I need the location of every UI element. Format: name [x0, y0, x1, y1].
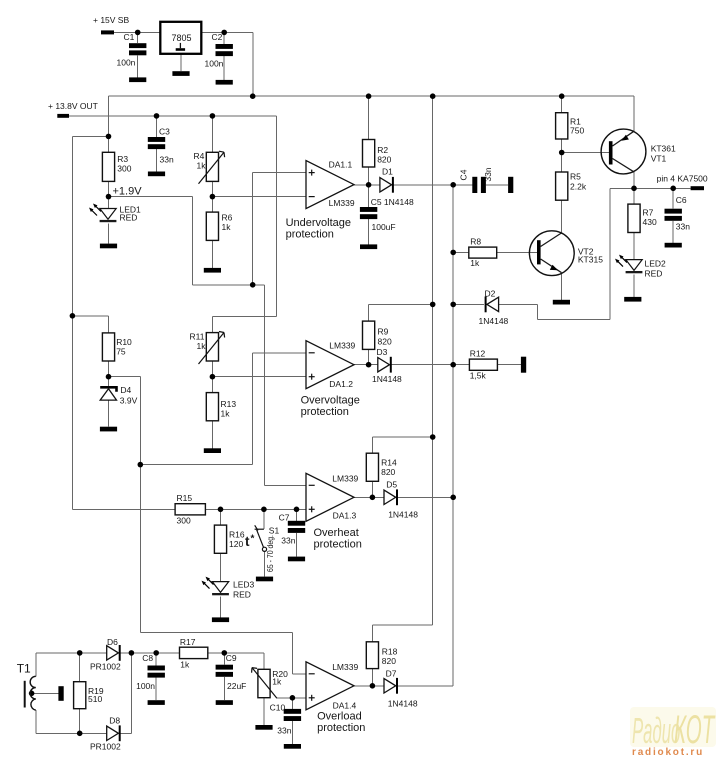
svg-text:protection: protection	[286, 229, 334, 241]
svg-text:22uF: 22uF	[227, 681, 246, 691]
svg-text:LM339: LM339	[329, 198, 355, 208]
svg-text:1k: 1k	[197, 161, 207, 171]
svg-text:RED: RED	[233, 589, 251, 599]
svg-text:КОТ: КОТ	[674, 706, 716, 751]
svg-text:820: 820	[382, 656, 396, 666]
svg-text:1k: 1k	[470, 258, 480, 268]
svg-text:820: 820	[378, 336, 392, 346]
svg-text:33n: 33n	[281, 535, 295, 545]
svg-text:KT315: KT315	[578, 255, 603, 265]
svg-text:1k: 1k	[180, 660, 190, 670]
svg-text:1,5k: 1,5k	[470, 371, 487, 381]
svg-text:1k: 1k	[272, 677, 282, 687]
svg-text:1N4148: 1N4148	[479, 316, 509, 326]
svg-text:2.2k: 2.2k	[570, 182, 587, 192]
svg-text:t: t	[245, 534, 250, 549]
svg-text:DA1.4: DA1.4	[333, 700, 357, 710]
svg-text:T1: T1	[17, 662, 31, 676]
svg-text:R8: R8	[470, 237, 481, 247]
svg-text:R9: R9	[378, 327, 389, 337]
svg-text:protection: protection	[301, 406, 349, 418]
svg-text:3.9V: 3.9V	[120, 396, 138, 406]
svg-text:1N4148: 1N4148	[372, 374, 402, 384]
svg-text:100uF: 100uF	[372, 222, 396, 232]
svg-text:Overload: Overload	[317, 711, 362, 723]
svg-text:120: 120	[229, 539, 243, 549]
svg-text:C8: C8	[142, 653, 153, 663]
svg-text:PR1002: PR1002	[90, 662, 121, 672]
svg-text:LM339: LM339	[332, 474, 358, 484]
svg-text:Overvoltage: Overvoltage	[301, 395, 360, 407]
svg-text:+ 13.8V OUT: + 13.8V OUT	[48, 101, 98, 111]
svg-text:C2: C2	[212, 32, 223, 42]
svg-text:C10: C10	[270, 703, 286, 713]
svg-text:protection: protection	[314, 539, 362, 551]
svg-text:R3: R3	[117, 154, 128, 164]
svg-text:LM339: LM339	[332, 662, 358, 672]
svg-text:C7: C7	[279, 513, 290, 523]
svg-text:D4: D4	[120, 385, 131, 395]
svg-text:RED: RED	[120, 213, 138, 223]
svg-text:510: 510	[88, 694, 102, 704]
svg-text:1k: 1k	[221, 409, 231, 419]
svg-text:PR1002: PR1002	[90, 742, 121, 752]
svg-text:protection: protection	[317, 722, 365, 734]
svg-text:33n: 33n	[483, 167, 493, 181]
svg-text:1N4148: 1N4148	[388, 698, 418, 708]
svg-text:S1: S1	[269, 526, 280, 536]
svg-text:R2: R2	[377, 145, 388, 155]
svg-text:R13: R13	[221, 399, 237, 409]
svg-text:LED2: LED2	[645, 258, 667, 268]
svg-text:DA1.2: DA1.2	[329, 379, 353, 389]
svg-text:*: *	[251, 534, 255, 545]
svg-text:R11: R11	[190, 332, 205, 342]
svg-text:DA1.3: DA1.3	[333, 510, 357, 520]
svg-text:Undervoltage: Undervoltage	[286, 217, 351, 229]
svg-text:radiokot.ru: radiokot.ru	[632, 747, 704, 758]
svg-text:R5: R5	[570, 172, 581, 182]
svg-text:75: 75	[116, 347, 126, 357]
svg-text:pin 4 KA7500: pin 4 KA7500	[657, 174, 708, 184]
svg-text:R14: R14	[381, 458, 397, 468]
svg-text:1N4148: 1N4148	[388, 509, 418, 519]
svg-text:D8: D8	[109, 716, 120, 726]
svg-text:DA1.1: DA1.1	[329, 159, 353, 169]
svg-text:33n: 33n	[277, 725, 291, 735]
svg-text:LED3: LED3	[233, 579, 255, 589]
svg-text:RED: RED	[645, 268, 663, 278]
svg-text:C6: C6	[676, 195, 687, 205]
svg-text:33n: 33n	[676, 222, 690, 232]
svg-text:D5: D5	[386, 479, 397, 489]
svg-text:+1.9V: +1.9V	[113, 186, 143, 198]
svg-text:33n: 33n	[160, 155, 174, 165]
svg-text:R17: R17	[180, 637, 196, 647]
svg-text:430: 430	[643, 217, 657, 227]
svg-text:Overheat: Overheat	[314, 527, 359, 539]
svg-text:1k: 1k	[222, 222, 232, 232]
svg-text:D1: D1	[382, 167, 393, 177]
svg-text:C5 1N4148: C5 1N4148	[371, 197, 414, 207]
svg-text:C4: C4	[459, 169, 469, 180]
svg-text:VT1: VT1	[651, 154, 667, 164]
svg-text:+ 15V SB: + 15V SB	[93, 15, 129, 25]
svg-text:750: 750	[570, 126, 584, 136]
svg-text:R12: R12	[470, 348, 486, 358]
svg-text:65 - 70 deg.: 65 - 70 deg.	[266, 535, 275, 572]
svg-text:R6: R6	[222, 213, 233, 223]
svg-text:C9: C9	[226, 653, 237, 663]
svg-text:C1: C1	[124, 32, 135, 42]
svg-text:KT361: KT361	[651, 144, 676, 154]
svg-text:100n: 100n	[136, 681, 155, 691]
svg-text:7805: 7805	[172, 33, 192, 43]
svg-text:R15: R15	[177, 493, 193, 503]
svg-text:100n: 100n	[117, 58, 136, 68]
svg-text:300: 300	[117, 164, 131, 174]
svg-text:300: 300	[177, 516, 191, 526]
svg-text:R18: R18	[382, 646, 398, 656]
svg-text:820: 820	[377, 154, 391, 164]
svg-text:D6: D6	[107, 637, 118, 647]
svg-text:100n: 100n	[205, 59, 224, 69]
svg-text:820: 820	[381, 467, 395, 477]
svg-text:C3: C3	[159, 127, 170, 137]
svg-text:LM339: LM339	[329, 341, 355, 351]
svg-text:D7: D7	[386, 668, 397, 678]
svg-text:1k: 1k	[197, 341, 207, 351]
svg-text:D3: D3	[377, 347, 388, 357]
svg-text:D2: D2	[485, 288, 496, 298]
